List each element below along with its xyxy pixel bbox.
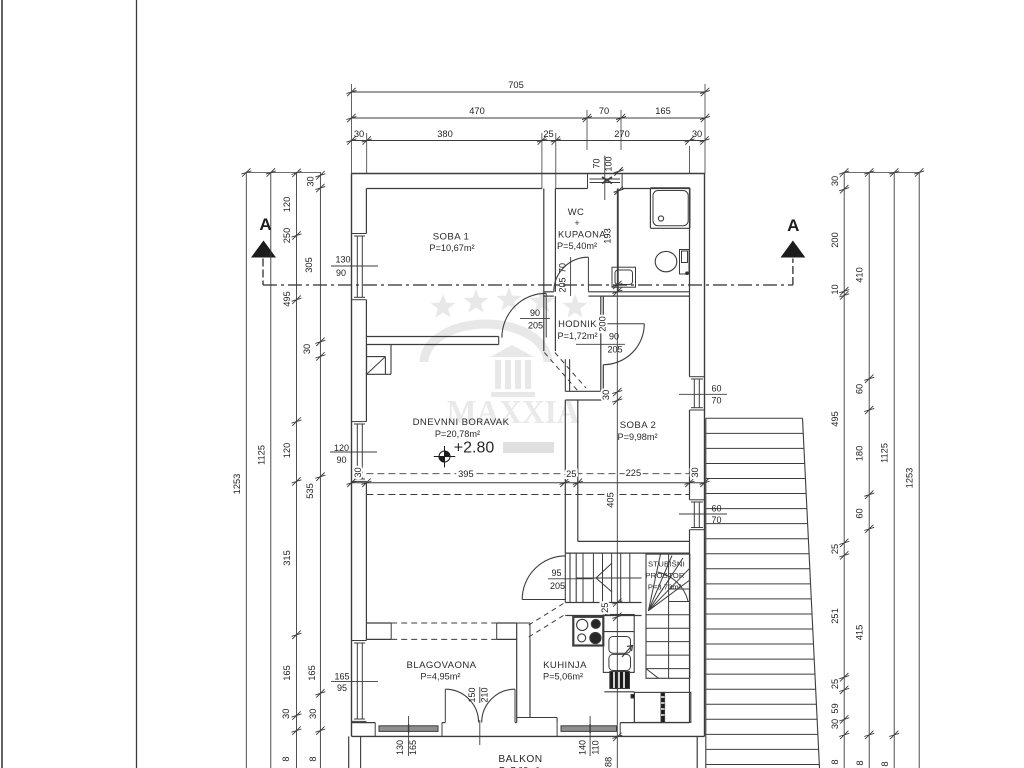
svg-text:P=5,06m²: P=5,06m² xyxy=(543,672,583,682)
svg-text:405: 405 xyxy=(606,492,616,508)
dimension col right chain 1 xyxy=(843,172,845,768)
kitchen stove xyxy=(573,617,603,646)
svg-text:305: 305 xyxy=(304,257,314,273)
dashed opening blagovaona-kitchen xyxy=(529,604,564,626)
svg-text:200: 200 xyxy=(830,232,840,248)
svg-text:205: 205 xyxy=(607,345,622,355)
svg-text:110: 110 xyxy=(591,740,601,754)
svg-text:+2.80: +2.80 xyxy=(454,440,495,457)
svg-text:165: 165 xyxy=(334,672,349,682)
svg-text:30: 30 xyxy=(302,344,312,354)
toilet xyxy=(655,251,677,271)
svg-text:60: 60 xyxy=(711,384,721,394)
svg-text:70: 70 xyxy=(711,396,721,406)
svg-text:100: 100 xyxy=(604,156,614,171)
dim labels interior row xyxy=(353,467,700,479)
svg-text:P=20,78m²: P=20,78m² xyxy=(435,429,480,439)
section marker A left xyxy=(251,241,276,258)
svg-text:140: 140 xyxy=(578,740,588,755)
page border line left xyxy=(1,0,3,768)
section line A-A xyxy=(262,259,264,286)
svg-text:200: 200 xyxy=(598,316,608,332)
svg-text:8: 8 xyxy=(855,760,865,765)
svg-text:90: 90 xyxy=(530,308,540,318)
exterior staircase xyxy=(705,418,707,768)
svg-text:495: 495 xyxy=(282,291,292,307)
page border line inner xyxy=(136,0,138,768)
svg-text:P=9,98m²: P=9,98m² xyxy=(617,432,657,442)
svg-text:WC: WC xyxy=(568,206,584,217)
dimension col left 1253 xyxy=(245,172,247,768)
svg-text:250: 250 xyxy=(282,228,292,244)
stair lower treads xyxy=(646,614,690,616)
window W5 right wall 60/70 xyxy=(690,376,705,378)
dimension col left chain 3 xyxy=(296,172,298,768)
interior dim col 193/200/30/405/25 xyxy=(616,189,618,768)
svg-text:30: 30 xyxy=(830,176,840,186)
flue box xyxy=(366,345,368,375)
partition WC/bathroom xyxy=(617,189,619,292)
shower xyxy=(650,188,690,228)
svg-text:8: 8 xyxy=(880,761,890,766)
stairwell xyxy=(646,554,690,678)
hodnik south niche walls xyxy=(564,359,566,391)
svg-text:251: 251 xyxy=(830,608,840,624)
svg-text:70: 70 xyxy=(592,158,602,168)
kitchen sink unit xyxy=(603,615,634,673)
balcony edges xyxy=(348,736,350,768)
svg-text:SOBA 2: SOBA 2 xyxy=(620,420,657,431)
svg-text:30: 30 xyxy=(306,176,316,186)
svg-text:210: 210 xyxy=(480,687,490,702)
svg-text:60: 60 xyxy=(855,508,865,518)
svg-text:90: 90 xyxy=(609,332,619,342)
window W2 left wall 120/90 xyxy=(352,421,367,423)
window W3 left wall 165/95 xyxy=(352,640,367,642)
svg-text:205: 205 xyxy=(528,321,543,331)
svg-text:BLAGOVAONA: BLAGOVAONA xyxy=(407,660,477,671)
svg-text:30: 30 xyxy=(690,467,700,477)
svg-text:25: 25 xyxy=(830,679,840,689)
svg-text:70: 70 xyxy=(558,263,568,273)
door KUHINJA 95/205 xyxy=(522,599,566,601)
exterior wall bottom xyxy=(352,735,705,737)
door balcony french 150/210 xyxy=(444,689,446,722)
dimension col right 1125 xyxy=(893,172,895,768)
svg-text:180: 180 xyxy=(855,446,865,462)
exterior wall left xyxy=(351,174,353,737)
svg-text:PROSTOR: PROSTOR xyxy=(645,571,685,580)
svg-text:25: 25 xyxy=(830,544,840,554)
svg-text:395: 395 xyxy=(458,469,474,479)
hodnik top wall + bathroom bottom wall xyxy=(544,291,554,293)
svg-text:P=4,95m²: P=4,95m² xyxy=(420,672,460,682)
svg-text:1125: 1125 xyxy=(880,443,890,463)
dimension col left 1125 xyxy=(270,172,272,768)
level symbol xyxy=(434,446,455,467)
svg-text:410: 410 xyxy=(855,267,865,283)
svg-text:30: 30 xyxy=(353,467,363,477)
svg-text:P=1,72m²: P=1,72m² xyxy=(557,331,597,341)
svg-text:415: 415 xyxy=(855,625,865,641)
stair upper flight treads xyxy=(582,553,584,602)
window W8 bottom wall kitchen 140/110 xyxy=(556,723,558,737)
svg-text:130: 130 xyxy=(335,255,350,265)
wall jog below kitchen wall xyxy=(517,717,557,719)
svg-text:150: 150 xyxy=(467,687,477,702)
partition SOBA1/WC + hodnik west wall xyxy=(543,189,545,352)
dim labels interior col xyxy=(598,228,616,767)
svg-text:205: 205 xyxy=(558,277,568,292)
svg-text:P=10,67m²: P=10,67m² xyxy=(429,243,474,253)
svg-text:205: 205 xyxy=(550,581,565,591)
svg-text:120: 120 xyxy=(334,443,349,453)
understair closet xyxy=(634,692,690,722)
svg-text:59: 59 xyxy=(830,703,840,713)
exterior wall right xyxy=(704,174,706,737)
kitchen north wall under stair flight xyxy=(565,602,641,604)
svg-text:90: 90 xyxy=(336,268,346,278)
section marker A right xyxy=(781,241,806,258)
svg-text:A: A xyxy=(787,216,799,235)
window W6 right wall 60/70 lower xyxy=(690,499,705,501)
svg-text:95: 95 xyxy=(551,568,561,578)
svg-text:270: 270 xyxy=(614,129,630,139)
svg-text:705: 705 xyxy=(508,80,524,90)
svg-text:30: 30 xyxy=(601,390,611,400)
svg-text:A: A xyxy=(259,215,271,234)
svg-text:8: 8 xyxy=(830,759,840,764)
svg-text:KUPAONA: KUPAONA xyxy=(558,229,606,240)
svg-text:120: 120 xyxy=(282,197,292,213)
dimension row top 705 xyxy=(351,91,705,93)
svg-text:25: 25 xyxy=(543,129,553,139)
SOBA2 west wall lower xyxy=(564,400,566,553)
svg-text:165: 165 xyxy=(655,106,671,116)
svg-text:30: 30 xyxy=(692,129,702,139)
svg-text:8: 8 xyxy=(281,756,291,761)
svg-text:470: 470 xyxy=(469,106,485,116)
svg-text:10: 10 xyxy=(830,284,840,294)
svg-text:BALKON: BALKON xyxy=(498,754,542,765)
svg-text:70: 70 xyxy=(711,515,721,525)
svg-text:HODNIK: HODNIK xyxy=(558,318,597,329)
svg-text:STUBIŠNI: STUBIŠNI xyxy=(648,560,685,569)
svg-text:8: 8 xyxy=(308,756,318,761)
svg-text:P=5,40m²: P=5,40m² xyxy=(557,241,597,251)
svg-text:88: 88 xyxy=(604,757,614,767)
SOBA1 bottom wall xyxy=(366,336,498,338)
stair winders fan xyxy=(648,554,660,611)
svg-text:1125: 1125 xyxy=(257,445,267,465)
svg-text:30: 30 xyxy=(830,719,840,729)
dimension row top 30/380/25/270/30 xyxy=(351,140,704,142)
svg-text:30: 30 xyxy=(281,709,291,719)
window W1 left wall 130/90 xyxy=(352,233,367,235)
svg-text:DNEVNNI BORAVAK: DNEVNNI BORAVAK xyxy=(413,417,510,428)
dashed opening hodnik-dnevni xyxy=(544,353,577,391)
svg-text:30: 30 xyxy=(308,709,318,719)
svg-text:KUHINJA: KUHINJA xyxy=(543,660,587,671)
hodnik east wall (to SOBA2) xyxy=(600,296,602,391)
svg-text:60: 60 xyxy=(711,504,721,514)
door SOBA1 90/205 xyxy=(545,293,547,337)
svg-text:25: 25 xyxy=(566,469,576,479)
svg-text:225: 225 xyxy=(626,468,642,478)
svg-text:120: 120 xyxy=(282,443,292,459)
svg-text:130: 130 xyxy=(395,740,405,755)
svg-text:535: 535 xyxy=(305,483,315,499)
door SOBA2 90/205 xyxy=(603,323,644,325)
svg-text:165: 165 xyxy=(307,665,317,681)
kitchen counter low xyxy=(604,691,634,693)
svg-text:+: + xyxy=(574,218,579,228)
dimension col right 1253 xyxy=(918,172,920,768)
svg-text:165: 165 xyxy=(408,740,418,755)
svg-text:90: 90 xyxy=(336,455,346,465)
svg-text:P=3,73m²: P=3,73m² xyxy=(648,583,682,592)
blagovaona/kitchen wall xyxy=(516,623,518,723)
blagovaona top wall xyxy=(366,622,391,624)
watermark logo xyxy=(424,287,587,453)
svg-text:SOBA 1: SOBA 1 xyxy=(433,232,470,243)
dimension col left chain 4 xyxy=(319,172,321,768)
svg-text:495: 495 xyxy=(830,411,840,427)
svg-text:30: 30 xyxy=(354,129,364,139)
svg-text:1253: 1253 xyxy=(232,474,242,495)
svg-text:315: 315 xyxy=(282,550,292,566)
appliance hatched xyxy=(610,672,630,689)
svg-text:60: 60 xyxy=(855,384,865,394)
window W7 bottom wall 130/165 xyxy=(374,723,376,737)
svg-text:25: 25 xyxy=(600,603,610,613)
svg-text:70: 70 xyxy=(599,106,609,116)
exterior wall top xyxy=(352,173,706,175)
door WC 70/205 xyxy=(587,257,589,292)
svg-text:95: 95 xyxy=(337,683,347,693)
svg-text:165: 165 xyxy=(282,665,292,681)
dimension row top 470/70/165 xyxy=(351,117,705,119)
window W4 top wall 70/100 xyxy=(587,174,589,189)
svg-text:1253: 1253 xyxy=(905,468,915,489)
interior dim row dashed/solid 30/395/25/225/30 xyxy=(366,473,689,475)
SOBA2 bottom wall / stair top xyxy=(578,540,690,542)
dimension col right chain 2 xyxy=(868,172,870,768)
svg-text:380: 380 xyxy=(437,129,453,139)
bathroom sink xyxy=(612,267,636,287)
